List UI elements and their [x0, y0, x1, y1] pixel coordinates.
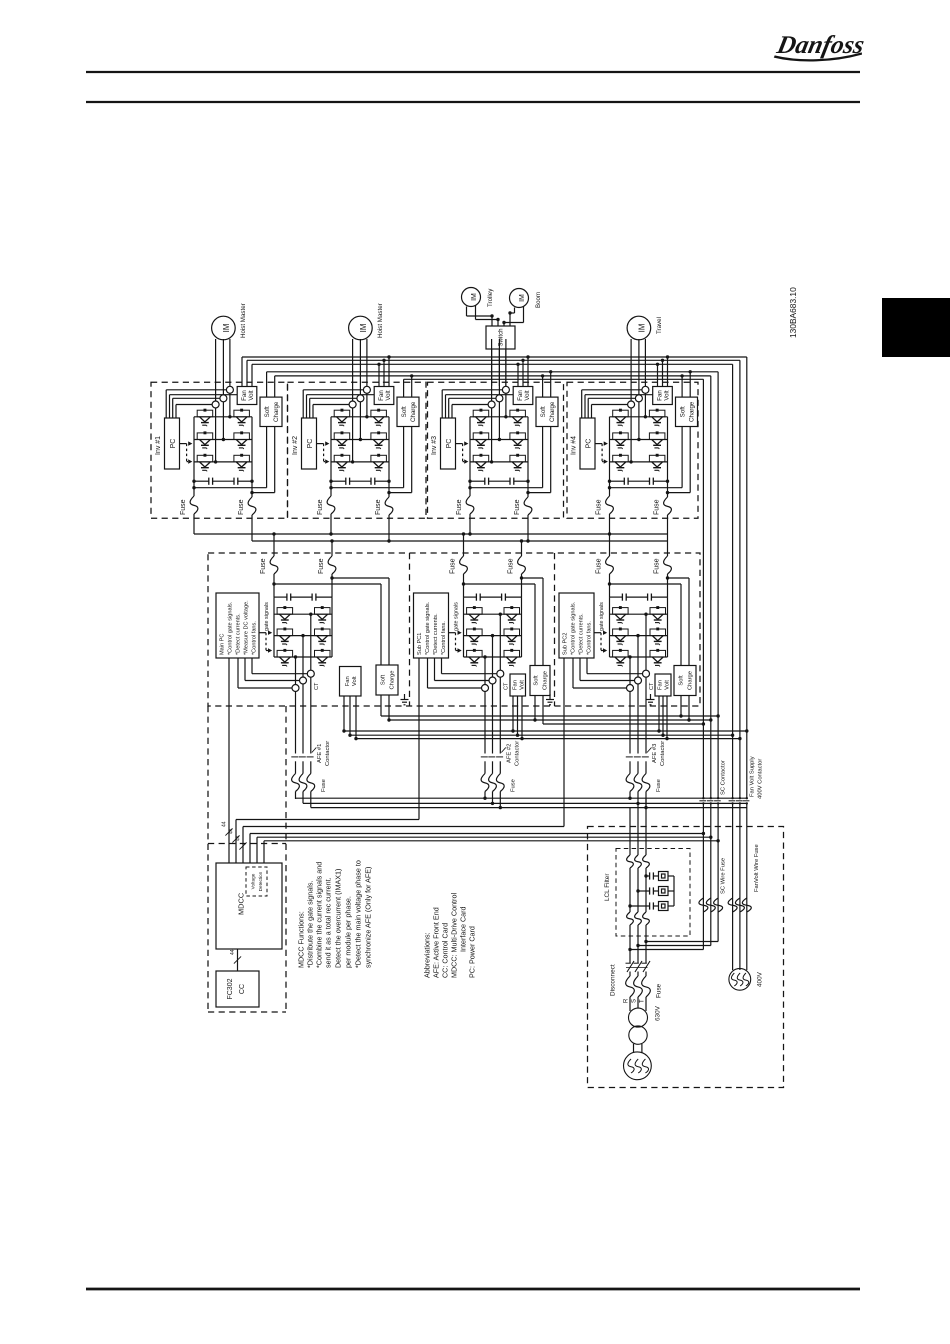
svg-text:synchronize AFE (Only for AFE): synchronize AFE (Only for AFE) [364, 867, 373, 968]
svg-text:AFE #3: AFE #3 [652, 744, 658, 763]
soft charge box inv2 [397, 397, 419, 426]
svg-text:Fuse: Fuse [508, 558, 515, 574]
wire DC bottom rail inv1 [192, 427, 266, 490]
svg-text:FanVolt Wire Fuse: FanVolt Wire Fuse [754, 844, 760, 892]
top rule 1 [86, 71, 860, 73]
gate signal arrows PC2 [317, 441, 330, 463]
wire AFE3 connector row2 [610, 635, 668, 637]
svg-text:*Detect currents.: *Detect currents. [236, 613, 242, 655]
wires PC1 gate/sense harness [166, 390, 237, 418]
svg-text:Voltage: Voltage [251, 873, 256, 889]
wire AFE2 connector row1 [464, 613, 522, 615]
IGBT AFE1 R2L [315, 628, 331, 646]
figure id 130BA683.10 [788, 287, 798, 338]
svg-text:Boom: Boom [535, 292, 542, 308]
wires fan volt to supply bus AFE3 [657, 696, 668, 740]
current transformers CT AFE1 [292, 670, 314, 691]
AFE control card Sub PC2 [559, 593, 594, 658]
fuse F3b [514, 493, 532, 541]
wire right riser FV 2 [739, 360, 741, 970]
ground AFE3 [647, 694, 655, 705]
svg-text:PC: PC [586, 439, 593, 449]
switch box [486, 326, 515, 349]
top rule 2 [86, 101, 860, 103]
IGBT Q41H [613, 409, 629, 427]
AFE1 soft charge DC feed [272, 576, 389, 665]
capacitor bank inv1 [192, 478, 253, 485]
IGBT Q32H [473, 431, 489, 449]
IGBT AFE1 R1L [315, 606, 331, 624]
soft charge box inv3 [536, 397, 558, 426]
svg-text:PC: PC [170, 439, 177, 449]
svg-text:*Detect the main voltage phase: *Detect the main voltage phase to [354, 860, 363, 968]
wires soft charge to bus AFE3 [679, 695, 690, 722]
svg-text:Volt: Volt [519, 680, 525, 690]
wires PC3 gate/sense harness [442, 390, 513, 418]
gate signal arrows PC3 [456, 441, 469, 463]
IGBT AFE3 R1L [650, 606, 666, 624]
fuse F4b [654, 493, 672, 541]
IGBT Q33L [510, 454, 526, 472]
wire AFE1 rail left [273, 597, 275, 657]
wire 3-phase bus L3 [311, 806, 747, 809]
IGBT AFE2 R1L [504, 606, 520, 624]
svg-text:*Detect currents.: *Detect currents. [433, 613, 439, 655]
wire phase connector row3 [194, 461, 252, 463]
svg-text:*Distribute the gate signals.: *Distribute the gate signals. [306, 881, 315, 969]
output contactor circles inv4 [628, 386, 649, 408]
wire right riser FV 3 [732, 364, 734, 970]
wire FV supply bus bottom 3 [356, 737, 742, 740]
label gate signals Sub PC1 [453, 602, 459, 631]
svg-text:Contactor: Contactor [514, 741, 520, 766]
MDCC corridor left edge [207, 706, 209, 1012]
IGBT Q41L [649, 409, 665, 427]
motor IM Boom [510, 289, 543, 309]
label SC contactor [721, 760, 727, 795]
svg-text:Fuse: Fuse [321, 779, 327, 792]
svg-text:AFE: Active Front End: AFE: Active Front End [432, 907, 441, 978]
svg-text:Interface Card: Interface Card [459, 906, 468, 952]
svg-text:Charge: Charge [688, 671, 694, 690]
AFE divider 2 [554, 553, 556, 706]
fuse F4a [596, 488, 614, 534]
IGBT AFE2 R2H [467, 628, 483, 646]
svg-text:*Control fans.: *Control fans. [587, 621, 593, 655]
Fan Volt Supply 400V contactor [729, 797, 750, 805]
label Inv #3 [431, 436, 438, 455]
svg-text:Travel: Travel [656, 317, 663, 334]
wires soft charge feed inv4 [680, 370, 692, 397]
svg-text:Trolley: Trolley [487, 288, 494, 307]
wires fan volt feed inv1 [242, 357, 252, 387]
label AFE #3 contactor [652, 741, 666, 766]
fan volt box AFE2 [510, 674, 526, 696]
wire AFE1 connector row2 [274, 635, 332, 637]
svg-text:*Detect currents.: *Detect currents. [579, 613, 585, 655]
label Travel [656, 317, 663, 334]
IGBT Q22L [371, 431, 387, 449]
wire phase connector row2 [194, 439, 252, 441]
wires PC4 gate/sense harness [582, 390, 653, 418]
svg-text:Fuse: Fuse [514, 499, 521, 515]
label CT AFE3 [649, 682, 655, 690]
wire fan-volt supply bus A [242, 356, 747, 358]
FC302 CC box [216, 971, 259, 1007]
svg-text:CT: CT [314, 682, 320, 690]
svg-text:Switch: Switch [498, 328, 505, 347]
svg-text:Soft: Soft [680, 406, 687, 417]
AFE control card Sub PC1 [414, 593, 449, 658]
svg-text:IM: IM [359, 324, 368, 333]
IGBT Q13H [197, 454, 213, 472]
svg-text:Fan: Fan [378, 390, 385, 401]
svg-text:PC: PC [446, 439, 453, 449]
AFE section enclosure [208, 553, 700, 706]
AFE2 soft charge DC feed [462, 576, 543, 665]
svg-text:Fuse: Fuse [260, 558, 267, 574]
IGBT AFE1 R2H [277, 628, 293, 646]
wires soft charge to bus AFE1 [381, 695, 391, 722]
power card PC U3 [441, 418, 456, 469]
svg-text:Main PC: Main PC [220, 634, 226, 655]
IGBT AFE3 R2L [650, 628, 666, 646]
AFE3 fuse right [654, 541, 672, 597]
label fan volt wire fuse [754, 844, 760, 892]
SC contactor [699, 797, 720, 805]
wires fan volt to supply bus AFE2 [511, 696, 523, 740]
black side tab [882, 298, 950, 357]
wire fan-volt supply bus B [247, 359, 740, 361]
svg-text:Inv #4: Inv #4 [571, 436, 578, 455]
gate signal arrows Sub PC1 [449, 631, 462, 653]
svg-text:*Control gate signals.: *Control gate signals. [571, 601, 577, 655]
wires switch to inverter 3 [492, 349, 506, 386]
label Trolley [487, 288, 494, 307]
svg-text:Fan: Fan [517, 390, 524, 401]
svg-text:PC: PC [307, 439, 314, 449]
svg-text:MDCC Functions:: MDCC Functions: [297, 911, 306, 968]
LCL damping branch 3 [628, 902, 674, 911]
label SC wire fuse [721, 858, 727, 894]
fan volt box AFE1 [340, 667, 362, 697]
IGBT Q43L [649, 454, 665, 472]
wire phase S [634, 803, 643, 1008]
MDCC functions note [297, 860, 373, 968]
wire AFE3 rail left [609, 597, 611, 657]
svg-text:Inv #3: Inv #3 [431, 436, 438, 455]
motor IM Travel [627, 316, 651, 340]
label fan volt supply contactor [750, 756, 764, 799]
fan volt supply box inv3 [513, 387, 533, 405]
wire phase connector row1 [331, 416, 389, 418]
fan volt supply box inv2 [374, 387, 394, 405]
wires Main PC CT sense [238, 658, 307, 688]
current transformers CT AFE2 [482, 670, 504, 691]
AFE #1 contactor [291, 748, 316, 808]
wire phase connector row2 [331, 439, 389, 441]
svg-text:Fan: Fan [345, 676, 351, 686]
svg-text:MDCC: Multi-Drive Control: MDCC: Multi-Drive Control [450, 893, 459, 978]
fuse F1b [238, 493, 256, 541]
gate signal arrows Sub PC2 [594, 631, 607, 653]
svg-text:Detect the overcurrent (IMAX1): Detect the overcurrent (IMAX1) [334, 869, 343, 968]
soft charge box AFE1 [376, 665, 398, 695]
AFE divider 1 [409, 553, 411, 706]
wire soft-charge supply bus A [267, 371, 718, 373]
IGBT Q42L [649, 431, 665, 449]
fan volt box AFE3 [655, 674, 671, 696]
svg-text:CT: CT [504, 682, 510, 690]
svg-text:Volt: Volt [663, 390, 670, 401]
motor IM Hoist Master 2 [349, 316, 373, 340]
svg-text:CC: Control Card: CC: Control Card [441, 923, 450, 978]
svg-text:IM: IM [471, 293, 478, 301]
AFE2 fuse left [450, 534, 468, 597]
wire soft-charge supply bus C [404, 378, 704, 380]
svg-text:Fuse: Fuse [654, 558, 661, 574]
svg-text:Sub PC1: Sub PC1 [417, 633, 423, 655]
capacitor bank inv4 [608, 478, 669, 485]
wires AFE2 phase outputs [483, 613, 502, 754]
IGBT AFE2 R3L [504, 649, 520, 667]
label phase T [640, 999, 646, 1003]
label fuse AFE3 [656, 779, 662, 792]
AFE3 fuse left [596, 534, 614, 597]
IGBT Q23H [334, 454, 350, 472]
label Inv #1 [155, 436, 162, 455]
label Hoist Master 2 [377, 303, 384, 338]
svg-text:130BA683.10: 130BA683.10 [788, 287, 798, 338]
svg-text:Charge: Charge [689, 401, 696, 422]
gate signal arrows PC1 [180, 441, 193, 463]
label LCL filter [604, 873, 611, 901]
label Hoist Master 1 [240, 303, 247, 338]
wire MDCC to Sub PC1 [236, 658, 419, 863]
IGBT AFE2 R3H [467, 649, 483, 667]
label AFE #2 contactor [506, 741, 520, 766]
wires fan volt feed inv4 [656, 355, 669, 386]
gate signal arrows PC4 [595, 441, 608, 463]
wires Sub PC1 CT sense [428, 658, 497, 688]
svg-text:Fan: Fan [512, 680, 518, 690]
wire DC rail left inv2 [330, 417, 332, 488]
svg-text:Fuse: Fuse [456, 499, 463, 515]
AC source 3-phase [624, 1052, 652, 1080]
wires soft charge feed inv2 [404, 374, 414, 397]
label fuse AFE2 [510, 779, 516, 792]
bus width marks 44 [221, 821, 246, 849]
svg-text:Hoist Master: Hoist Master [240, 303, 247, 338]
wire MDCC to FC302 [230, 949, 241, 971]
wire DC rail right inv1 [251, 417, 253, 493]
wire DC rail right inv3 [527, 417, 529, 493]
soft charge box AFE2 [530, 666, 550, 696]
wires transformer to source [634, 1044, 642, 1053]
svg-text:Inv #1: Inv #1 [155, 436, 162, 455]
label fuse input [655, 983, 662, 998]
IGBT AFE1 R3H [277, 649, 293, 667]
wire MDCC mains sense 1 [250, 832, 705, 863]
svg-text:FC302: FC302 [227, 978, 234, 999]
IGBT AFE1 R3L [315, 649, 331, 667]
svg-text:44: 44 [235, 835, 241, 841]
IGBT Q23L [371, 454, 387, 472]
svg-text:AFE #2: AFE #2 [506, 744, 512, 763]
svg-text:Volt: Volt [665, 680, 671, 690]
svg-text:Fuse: Fuse [656, 779, 662, 792]
wire DC rail left inv4 [609, 417, 611, 488]
Danfoss logo [773, 30, 867, 60]
svg-text:T: T [640, 999, 646, 1003]
svg-text:Volt: Volt [524, 390, 531, 401]
svg-text:Fan: Fan [241, 390, 248, 401]
wire phase connector row1 [610, 416, 668, 418]
inverter module Inv #4 enclosure [567, 382, 698, 518]
wire phase connector row3 [610, 461, 668, 463]
IGBT AFE1 R1H [277, 606, 293, 624]
soft charge box inv1 [260, 397, 282, 426]
svg-text:630V: 630V [654, 1005, 661, 1021]
wire right riser SC 1 [717, 372, 719, 942]
svg-text:Hoist Master: Hoist Master [377, 303, 384, 338]
wire DC bottom rail2 inv1 [250, 427, 274, 495]
svg-text:Volt: Volt [352, 676, 358, 686]
svg-text:Detection: Detection [258, 871, 263, 891]
wire SC supply bus bottom 3 [543, 722, 705, 725]
fuse F2a [317, 488, 335, 534]
label CT AFE2 [504, 682, 510, 690]
wire FV supply bus bottom 1 [344, 729, 749, 732]
MDCC corridor divider [208, 843, 286, 845]
gate signal arrows Main PC [259, 631, 272, 653]
output contactor circles inv1 [212, 386, 233, 408]
wire phase connector row1 [194, 416, 252, 418]
AFE1 fuse right [318, 541, 336, 597]
inverter module Inv #3 enclosure [428, 382, 564, 518]
svg-text:Charge: Charge [543, 671, 549, 690]
IGBT AFE3 R3L [650, 649, 666, 667]
disconnect switch [626, 961, 651, 972]
svg-text:CT: CT [649, 682, 655, 690]
fuse F3a [456, 488, 474, 534]
wire FV supply bus bottom 2 [350, 734, 734, 737]
svg-text:44: 44 [228, 828, 234, 834]
svg-text:Soft: Soft [679, 675, 685, 686]
svg-text:gate signals: gate signals [599, 602, 605, 631]
wire SC tap 1 [644, 940, 718, 943]
label AFE #1 contactor [317, 741, 331, 766]
svg-text:Volt: Volt [248, 390, 255, 401]
svg-text:SC Contactor: SC Contactor [721, 760, 727, 795]
svg-text:Fan: Fan [658, 680, 664, 690]
wire phase connector row2 [470, 439, 528, 441]
svg-text:*Combine the current signals a: *Combine the current signals and [315, 862, 324, 968]
wire AFE2 connector row3 [464, 656, 522, 658]
IGBT Q32L [510, 431, 526, 449]
wire MDCC mains sense 3 [264, 839, 720, 863]
inverter module Inv #1 enclosure [151, 382, 288, 518]
wire right riser SC 3 [702, 379, 704, 949]
output contactor circles inv2 [349, 386, 370, 408]
svg-text:LCL Filter: LCL Filter [604, 873, 611, 901]
inverter module Inv #2 enclosure [288, 382, 427, 518]
svg-text:Soft: Soft [401, 406, 408, 417]
soft charge box AFE3 [674, 666, 696, 696]
svg-text:Fan: Fan [656, 390, 663, 401]
label 400V [756, 971, 763, 987]
wire DC bottom rail inv4 [608, 427, 682, 490]
400V supply source [729, 968, 751, 990]
svg-text:44: 44 [230, 949, 236, 955]
wires soft charge feed inv1 [267, 372, 275, 397]
LCL damping branch 1 [644, 872, 674, 881]
wires motor leads inv1 [214, 339, 232, 464]
voltage detection box [246, 867, 267, 896]
svg-text:gate signals: gate signals [453, 602, 459, 631]
svg-text:400V: 400V [756, 971, 763, 987]
wire 3-phase bus L2 [303, 802, 747, 805]
wire DC bottom rail2 inv2 [387, 427, 411, 495]
wire AFE1 rail right [331, 597, 333, 657]
svg-text:Fuse: Fuse [317, 499, 324, 515]
IGBT Q31H [473, 409, 489, 427]
svg-text:Charge: Charge [410, 401, 417, 422]
AFE2 fuse right [508, 541, 526, 597]
wire DC bus negative [252, 539, 668, 542]
svg-text:*Control gate signals.: *Control gate signals. [228, 601, 234, 655]
wire DC bottom rail inv2 [329, 427, 403, 490]
svg-text:per module per phase.: per module per phase. [344, 896, 353, 968]
label MDCC [237, 892, 246, 915]
wire MDCC to Main PC [228, 658, 230, 863]
wire DC rail left inv1 [193, 417, 195, 488]
wire right riser SC 2 [710, 376, 712, 946]
svg-text:IM: IM [637, 324, 646, 333]
wires PC2 gate/sense harness [303, 390, 374, 418]
IGBT Q33H [473, 454, 489, 472]
svg-text:PC: Power Card: PC: Power Card [468, 926, 477, 978]
fuse F1a [180, 488, 198, 534]
wire SC supply bus bottom 2 [389, 718, 713, 721]
fan volt wire fuse [728, 898, 751, 912]
IGBT Q21L [371, 409, 387, 427]
IGBT Q31L [510, 409, 526, 427]
AFE #3 contactor [626, 748, 652, 808]
svg-text:*Control fans.: *Control fans. [252, 621, 258, 655]
svg-text:Contactor: Contactor [325, 741, 331, 766]
wire DC rail right inv2 [388, 417, 390, 493]
label fuse AFE1 [321, 779, 327, 792]
svg-text:Fuse: Fuse [450, 558, 457, 574]
IGBT Q42H [613, 431, 629, 449]
label 630V [654, 1005, 661, 1021]
svg-text:R: R [624, 998, 630, 1003]
IGBT Q22H [334, 431, 350, 449]
IGBT AFE2 R1H [467, 606, 483, 624]
label Inv #2 [292, 436, 299, 455]
IGBT Q43H [613, 454, 629, 472]
svg-text:*Control fans.: *Control fans. [441, 621, 447, 655]
wire MDCC to Sub PC2 [243, 658, 564, 863]
wire DC bottom rail inv3 [468, 427, 542, 490]
motor IM Trolley [462, 288, 481, 307]
label phase R [624, 998, 630, 1003]
svg-text:SC Wire Fuse: SC Wire Fuse [721, 858, 727, 894]
wires trolley to switch [467, 306, 500, 327]
AFE #2 contactor [481, 748, 506, 808]
svg-text:Fan Volt Supply: Fan Volt Supply [750, 756, 756, 797]
